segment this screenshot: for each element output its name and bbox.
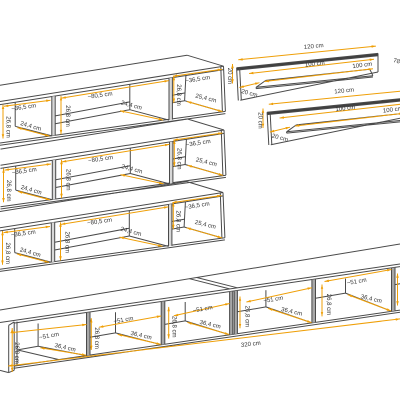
svg-text:~36,5 cm: ~36,5 cm <box>185 75 211 85</box>
svg-text:26,8 cm: 26,8 cm <box>64 232 70 254</box>
svg-text:120 cm: 120 cm <box>304 43 324 51</box>
svg-text:25,4 cm: 25,4 cm <box>195 94 217 105</box>
svg-text:100 cm: 100 cm <box>383 106 400 114</box>
svg-text:26,8 cm: 26,8 cm <box>13 342 19 364</box>
svg-text:~51 cm: ~51 cm <box>346 278 367 287</box>
svg-text:26,8 cm: 26,8 cm <box>64 105 70 127</box>
svg-text:26,8 cm: 26,8 cm <box>4 243 10 265</box>
svg-text:20 cm: 20 cm <box>257 112 263 128</box>
svg-text:26,8 cm: 26,8 cm <box>175 84 181 106</box>
svg-text:~80,5 cm: ~80,5 cm <box>87 218 113 227</box>
svg-text:26,8 cm: 26,8 cm <box>65 169 71 191</box>
svg-text:26,8 cm: 26,8 cm <box>5 180 11 202</box>
svg-text:120 cm: 120 cm <box>334 87 354 95</box>
svg-text:20 cm: 20 cm <box>226 68 232 84</box>
svg-text:320 cm: 320 cm <box>241 341 261 349</box>
svg-text:~51 cm: ~51 cm <box>192 305 213 314</box>
svg-text:20 cm: 20 cm <box>271 134 288 144</box>
svg-text:25,4 cm: 25,4 cm <box>195 157 217 168</box>
svg-text:~36,5 cm: ~36,5 cm <box>185 201 211 211</box>
svg-text:~80,5 cm: ~80,5 cm <box>88 155 114 164</box>
svg-text:~51 cm: ~51 cm <box>39 332 60 341</box>
svg-text:26,8 cm: 26,8 cm <box>4 116 10 138</box>
svg-text:25,4 cm: 25,4 cm <box>194 220 216 231</box>
svg-text:26,8 cm: 26,8 cm <box>176 148 182 170</box>
svg-text:26,8 cm: 26,8 cm <box>171 316 177 338</box>
svg-text:20 cm: 20 cm <box>241 89 258 99</box>
svg-text:~80,5 cm: ~80,5 cm <box>87 91 113 100</box>
svg-text:100 cm: 100 cm <box>305 60 325 68</box>
svg-text:~51 cm: ~51 cm <box>113 316 134 325</box>
svg-text:26,8 cm: 26,8 cm <box>325 294 331 316</box>
svg-text:26,8 cm: 26,8 cm <box>243 306 249 328</box>
svg-text:100 cm: 100 cm <box>335 105 355 113</box>
svg-text:~36,5 cm: ~36,5 cm <box>186 139 212 149</box>
svg-text:78,2 c: 78,2 c <box>393 58 400 68</box>
svg-text:26,8 cm: 26,8 cm <box>93 327 99 349</box>
svg-text:26,8 cm: 26,8 cm <box>175 211 181 233</box>
